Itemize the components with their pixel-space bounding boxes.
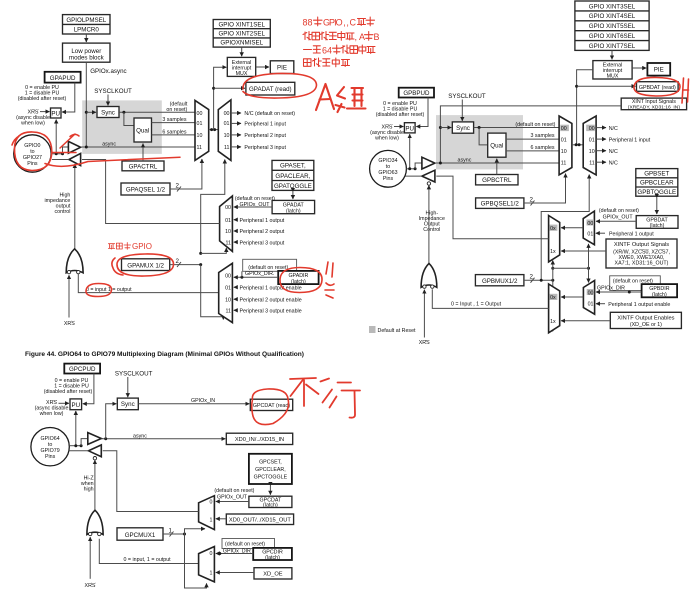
label rect default on reset dir B [610, 276, 661, 291]
wire mux1 to mux2 B [572, 144, 583, 146]
wire PU to pin line [55, 120, 57, 154]
svg-text:high: high [84, 487, 94, 493]
label Hi-Z when high [81, 476, 94, 493]
svg-text:Peripheral 1 output enable: Peripheral 1 output enable [240, 285, 302, 291]
red scribble arrow at buffers A [45, 134, 180, 166]
svg-text:GPACLEAR,: GPACLEAR, [275, 173, 310, 180]
svg-text:XRS: XRS [85, 583, 96, 589]
register box XD_OE [254, 568, 292, 579]
wire stage1 to stage2 out B [561, 227, 583, 229]
svg-text:Peripheral 1 output enable: Peripheral 1 output enable [608, 302, 670, 308]
wire OR out to driver enable B [428, 185, 430, 263]
wire GPCDAT latch to out mux C [216, 501, 249, 503]
label high impedance output control A [44, 192, 70, 215]
svg-text:00: 00 [197, 111, 203, 117]
svg-text:GPATOGGLE: GPATOGGLE [274, 183, 312, 190]
svg-text:SYSCLKOUT: SYSCLKOUT [115, 371, 153, 378]
wire sync to Qual B [479, 128, 488, 145]
svg-text:11: 11 [224, 145, 230, 151]
wire GPBDIR to dir mux B [596, 291, 642, 293]
red note: configure as GPIO [108, 242, 152, 251]
register box GPADAT (latch) A [272, 200, 315, 214]
svg-text:01: 01 [587, 231, 593, 237]
wire GPBCTRL to Qual [496, 159, 498, 175]
wire XRS to PU B [394, 126, 403, 128]
svg-text:(default on reset): (default on reset) [248, 265, 288, 271]
svg-text:GPBCTRL: GPBCTRL [482, 177, 512, 184]
svg-text:(latch): (latch) [652, 292, 667, 298]
register box GPIOLPMSEL/LPMCR0 [63, 15, 111, 34]
svg-text:10: 10 [197, 133, 203, 139]
pins circle GPIO34-GPIO63 [370, 150, 407, 187]
svg-text:00: 00 [589, 126, 595, 132]
svg-text:(disabled after reset): (disabled after reset) [44, 389, 93, 395]
wire XRS to OR A [68, 275, 70, 317]
mux B peripheral input demux [583, 116, 596, 175]
svg-text:Sync: Sync [456, 125, 470, 132]
wire output driver to pin [52, 159, 69, 161]
svg-text:0 = input, 1 = output: 0 = input, 1 = output [124, 557, 172, 563]
wire dir to OR A [78, 274, 218, 293]
mux A qualification select [195, 100, 209, 160]
Qual block B [488, 133, 506, 157]
mux B input demux labels with default shading [586, 125, 595, 131]
register box GPBDIR (latch) [642, 284, 678, 298]
svg-text:GPCTOGGLE: GPCTOGGLE [254, 475, 288, 481]
register box GPCDAT (read) [250, 399, 292, 410]
wire Sync out to mux 00 [119, 111, 195, 113]
wire XRS to PU C [59, 402, 69, 404]
svg-text:(XREADY, XD31:16_IN): (XREADY, XD31:16_IN) [628, 104, 680, 110]
mux B output stage1 [583, 211, 594, 245]
svg-text:01: 01 [589, 137, 595, 143]
svg-text:11: 11 [226, 240, 232, 246]
svg-text:01: 01 [588, 302, 594, 308]
svg-text:Peripheral 3 output enable: Peripheral 3 output enable [240, 309, 302, 315]
wire XINTF enables to dir mux B [561, 320, 610, 322]
wire enable to output driver A [74, 164, 76, 249]
wire stack to ext mux B [611, 50, 613, 59]
svg-text:GPCPUD: GPCPUD [69, 366, 96, 373]
svg-text:2: 2 [176, 183, 180, 190]
svg-text:0 = input 1 = output: 0 = input 1 = output [86, 287, 132, 293]
wire qual 3 samples [152, 122, 196, 124]
PU cell A [51, 108, 62, 118]
svg-text:XINT Input Signals: XINT Input Signals [632, 99, 676, 105]
wire set/clear to GPBDAT latch [656, 198, 658, 214]
svg-text:async: async [458, 157, 472, 163]
svg-text:00: 00 [225, 205, 231, 211]
mux B output stage2 [549, 216, 560, 262]
register box GPBQSEL1/2 [476, 198, 524, 209]
svg-text:00: 00 [224, 111, 230, 117]
wire qual 3 samples B [506, 138, 559, 140]
red marks right of GPADIR [325, 262, 334, 298]
svg-text:on reset): on reset) [166, 107, 187, 113]
mux A input demux labels [224, 111, 230, 151]
red handwriting A group [316, 84, 366, 112]
register box GPAMUX 1/2 [122, 259, 170, 271]
wire XRS to OR C [89, 537, 91, 579]
node GPADIR line A [240, 276, 243, 279]
node dots pin C [74, 444, 77, 447]
svg-text:MUX: MUX [607, 74, 619, 80]
wire async line A [81, 146, 195, 148]
mux A qual labels [197, 111, 203, 151]
wire to GPADAT read A [214, 87, 245, 89]
wire SYSCLKOUT arrow A [107, 95, 109, 106]
svg-text:PIE: PIE [277, 65, 287, 72]
red circle around GPADAT read [243, 73, 317, 98]
svg-text:0: 0 [209, 551, 212, 557]
label default on reset A [166, 101, 187, 113]
svg-text:GPIO XINT1SEL: GPIO XINT1SEL [218, 21, 265, 28]
svg-text:GPIO , , C: GPIO , , C [323, 18, 357, 28]
wire set/clear to GPCDAT latch [269, 486, 271, 495]
XINTF output signals box [606, 239, 677, 268]
wire pin to input buffer B [415, 163, 422, 169]
Sync block A [97, 107, 119, 118]
register box GPBCTRL [476, 175, 518, 185]
svg-text:GPAMUX 1/2: GPAMUX 1/2 [127, 262, 164, 269]
svg-text:GPBDAT (read): GPBDAT (read) [639, 85, 676, 91]
wire N/C 00 B [596, 127, 606, 129]
mux C direction select [199, 547, 215, 582]
svg-text:0x: 0x [550, 226, 556, 232]
svg-text:N/C: N/C [609, 126, 618, 132]
svg-text:Figure 44. GPIO64 to GPIO79 Mu: Figure 44. GPIO64 to GPIO79 Multiplexing… [25, 351, 304, 358]
svg-text:00: 00 [561, 126, 567, 132]
svg-text:when low): when low) [40, 411, 64, 417]
wire PU to pin line B [409, 134, 411, 169]
svg-text:modes block: modes block [69, 55, 105, 62]
svg-text:LPMCR0: LPMCR0 [74, 27, 100, 34]
wire XD_OE to dir mux C [216, 572, 254, 574]
label high impedance output control B [419, 211, 445, 234]
PU cell B [404, 123, 415, 133]
bus tick GPAMUX A [177, 262, 181, 267]
svg-text:control: control [54, 209, 70, 215]
wire pin to input buffer [63, 147, 69, 154]
node async riser B [439, 162, 442, 165]
svg-text:01: 01 [225, 285, 231, 291]
note pull-up text B [376, 101, 425, 118]
wire select to input demux A [201, 160, 225, 254]
wire output driver to pin B [406, 175, 422, 177]
svg-text:GPIOx_OUT: GPIOx_OUT [217, 494, 248, 500]
red note line 3: total 64 pins all can [304, 45, 376, 56]
wire pin node B [406, 168, 415, 170]
wire sync to Qual [124, 112, 134, 125]
svg-text:(default on reset): (default on reset) [515, 122, 555, 128]
svg-text:XINTF Output Signals: XINTF Output Signals [614, 242, 669, 248]
wire peripheral 3 output A [234, 241, 238, 243]
svg-text:GPADAT (read): GPADAT (read) [249, 86, 292, 93]
red note line 1: 88 GPIO , , C group cannot [303, 17, 375, 28]
wire dir stage1 to stage2 B [561, 296, 583, 298]
svg-text:(latch): (latch) [650, 223, 665, 229]
label rect default on reset dir A [243, 259, 297, 271]
node sync out [122, 111, 125, 114]
register box GPBMUX1/2 [475, 275, 524, 286]
svg-text:GPCDAT (read): GPCDAT (read) [253, 403, 290, 409]
svg-text:GPBCLEAR: GPBCLEAR [640, 180, 674, 187]
svg-text:N/C (default on reset): N/C (default on reset) [244, 111, 295, 117]
svg-text:GPBSET: GPBSET [644, 170, 669, 177]
svg-text:11: 11 [561, 160, 567, 166]
svg-text:0x: 0x [550, 295, 556, 301]
wire GPCDIR to dir mux C [216, 553, 253, 555]
wire GPCPUD to PU [83, 374, 94, 404]
svg-text:GPBTOGGLE: GPBTOGGLE [637, 189, 676, 196]
wire qual 6 samples [152, 134, 196, 136]
svg-text:GPIOx_OUT: GPIOx_OUT [603, 214, 634, 220]
red circle around pins A [12, 132, 52, 171]
svg-text:GPIOx_DIR: GPIOx_DIR [597, 286, 625, 292]
wire select to out mux C [185, 529, 206, 534]
OR gate C [87, 510, 103, 534]
wire N/C 10 B [596, 150, 606, 152]
svg-text:Peripheral 3 input: Peripheral 3 input [244, 145, 286, 151]
svg-text:(XD_OE or 1): (XD_OE or 1) [630, 322, 662, 328]
svg-text:Sync: Sync [121, 401, 135, 408]
red circle around GPAMUX [112, 254, 174, 276]
mux A direction labels [225, 274, 231, 315]
node dots between muxes A [210, 128, 213, 131]
svg-text:GPIO XINT4SEL: GPIO XINT4SEL [589, 13, 636, 20]
mux A output select [220, 196, 233, 251]
PU cell C [70, 399, 82, 410]
svg-text:PU: PU [51, 111, 60, 118]
svg-text:Default at Reset: Default at Reset [378, 328, 417, 334]
node select A [199, 252, 202, 255]
wire riser to ext mux B [577, 70, 593, 145]
svg-text:Peripheral 3 output: Peripheral 3 output [240, 240, 285, 246]
wire out mux to output driver A [82, 160, 220, 224]
svg-text:2: 2 [530, 197, 534, 204]
bus tick GPBQSEL [531, 201, 535, 206]
wire XRS to OR B [423, 290, 425, 338]
register box GPBSET/GPBCLEAR/GPBTOGGLE [636, 169, 678, 197]
wire GPACTRL to Qual [142, 144, 144, 162]
mux A peripheral input demux [218, 100, 231, 160]
register stack GPIO XINT3SEL..XINT7SEL [575, 1, 649, 50]
wire dir out to OR C [99, 539, 198, 564]
input buffer B [422, 157, 435, 169]
node GPBDIR line [628, 291, 631, 294]
mux C direction labels [209, 551, 212, 576]
node GPBDAT read tap [575, 85, 578, 88]
svg-text:GPIOXNMISEL: GPIOXNMISEL [220, 40, 263, 47]
svg-text:(default on reset): (default on reset) [214, 488, 254, 494]
red handwriting not ok C [290, 378, 360, 418]
wire set/clear to GPADAT latch A [292, 192, 294, 199]
svg-text:GPIOx.async: GPIOx.async [90, 68, 126, 75]
svg-text:01: 01 [197, 121, 203, 127]
svg-text:GPASET,: GPASET, [280, 163, 306, 170]
Sync block C [117, 398, 138, 410]
svg-text:1x: 1x [550, 249, 556, 255]
junction async/GPIOx.async [85, 146, 88, 149]
svg-text:GPIOx_DIR.: GPIOx_DIR. [245, 271, 274, 277]
svg-text:(latch): (latch) [291, 279, 306, 285]
wire peripheral 1 output B [596, 232, 605, 234]
svg-text:N/C: N/C [609, 160, 618, 166]
red note line 2: cannot do external interrupt, A and B [303, 32, 380, 43]
svg-text:N/C: N/C [609, 149, 618, 155]
svg-text:6 samples: 6 samples [162, 130, 186, 136]
PIE box B [647, 63, 670, 76]
label XRS C [35, 400, 69, 417]
wire pin node C [69, 445, 81, 447]
svg-text:(latch): (latch) [286, 208, 301, 214]
svg-text:SYSCLKOUT: SYSCLKOUT [94, 88, 132, 95]
wire GPAMUX select A [170, 264, 201, 266]
wire OR out to driver enable C [94, 460, 96, 510]
OR gate A [66, 249, 83, 273]
svg-text:, A: , A [355, 32, 366, 42]
enable bubble output driver B [427, 182, 430, 185]
input buffer A [68, 141, 80, 153]
svg-text:Qual: Qual [136, 127, 149, 134]
node GPADAT read tap A [212, 87, 215, 90]
wire select to dir stage1 B [588, 268, 590, 282]
svg-text:when low): when low) [375, 136, 399, 142]
node sync out B [478, 126, 481, 129]
svg-text:XINTF Output Enables: XINTF Output Enables [617, 316, 674, 322]
register box GPAQSEL 1/2 [121, 183, 170, 195]
svg-text:GPIOx_OUT: GPIOx_OUT [240, 202, 271, 208]
legend default at reset [369, 326, 416, 334]
wire dir out to OR B [432, 289, 548, 308]
svg-text:01: 01 [224, 121, 230, 127]
wire select riser stage2 B [552, 261, 554, 281]
svg-text:GPBQSEL1/2: GPBQSEL1/2 [481, 201, 520, 208]
mux B direction stage1 [583, 281, 594, 315]
svg-text:XRS: XRS [419, 340, 430, 346]
svg-text:GPCSET,: GPCSET, [259, 460, 282, 466]
svg-text:1x: 1x [550, 319, 556, 325]
bus tick GPCMUX [170, 532, 174, 537]
external interrupt mux A [227, 57, 255, 77]
svg-text:(default on reset): (default on reset) [599, 208, 639, 214]
svg-text:Pins: Pins [27, 161, 38, 167]
svg-text:B: B [374, 32, 380, 42]
XINTF output enables box [610, 312, 681, 328]
enable bubble output driver C [93, 457, 96, 460]
wire select to out mux A [201, 248, 227, 253]
register box GPADIR (latch) [278, 271, 318, 285]
register box GPBPUD [399, 88, 434, 98]
mux B direction stage2 [549, 284, 560, 333]
wire peripheral 3 input A [231, 146, 241, 148]
svg-text:3 samples: 3 samples [530, 133, 554, 139]
svg-text:(latch): (latch) [263, 503, 278, 509]
mux A direction select [219, 263, 233, 322]
svg-text:2: 2 [176, 258, 180, 265]
register box XD0_IN..XD15_IN [226, 433, 292, 444]
wire peripheral 1 output A [234, 219, 238, 221]
svg-text:Peripheral 1 output: Peripheral 1 output [240, 218, 285, 224]
mux B direction stage1 labels [587, 289, 594, 295]
svg-text:6 samples: 6 samples [530, 145, 554, 151]
mux B qualification select [559, 116, 572, 175]
svg-text:2: 2 [530, 274, 534, 281]
bus tick GPAQSEL [177, 187, 181, 192]
svg-text:01: 01 [225, 218, 231, 224]
svg-text:XD_OE: XD_OE [263, 572, 282, 578]
register box GPASET/GPACLEAR/GPATOGGLE [272, 160, 314, 190]
Sync block B [452, 122, 473, 133]
low power modes block [63, 43, 111, 62]
wire XRS to PU [40, 111, 50, 113]
node dots between muxes B [575, 143, 578, 146]
svg-text:0 = Input , 1 = Output: 0 = Input , 1 = Output [451, 302, 502, 308]
wire out mux to output driver C [103, 451, 199, 512]
svg-text:XD0_OUT/../XD15_OUT: XD0_OUT/../XD15_OUT [229, 518, 291, 524]
svg-text:PU: PU [405, 125, 414, 132]
svg-text:Control: Control [423, 227, 440, 233]
wire ext mux to PIE A [256, 66, 269, 68]
svg-text:Pins: Pins [45, 454, 56, 460]
wire peripheral 2 output A [234, 230, 238, 232]
register stack GPIO XINT1SEL/XINT2SEL/XNMISEL [213, 20, 270, 48]
label XRS A [16, 110, 50, 127]
register box GPCMUX1 [117, 528, 163, 540]
svg-text:GPAQSEL 1/2: GPAQSEL 1/2 [126, 187, 166, 194]
register box GPAPUD [45, 72, 81, 83]
wire GPBPUD to PU [416, 98, 428, 127]
wire GPBMUX select B [524, 279, 553, 281]
OR gate C input bubbles [89, 532, 92, 535]
svg-text:GPACTRL: GPACTRL [129, 163, 158, 170]
wire Sync out to mux B [474, 127, 559, 129]
svg-text:10: 10 [224, 133, 230, 139]
output driver C [89, 445, 102, 457]
svg-text:(default on reset): (default on reset) [225, 541, 265, 547]
output driver B [422, 170, 435, 182]
label XRS B [370, 124, 404, 141]
wire GPCMUX select [163, 533, 185, 535]
note pull-up text C [44, 378, 93, 395]
wire peripheral 2 output enable A [234, 298, 238, 300]
OR gate B [421, 263, 437, 287]
output driver A [69, 153, 81, 165]
mux B output stage2 labels [550, 225, 558, 231]
svg-text:Sync: Sync [101, 109, 115, 116]
wire qual 6 samples B [506, 150, 559, 152]
wire to Sync B [440, 127, 451, 129]
svg-text:00: 00 [588, 290, 594, 296]
wire riser to interrupt mux A [214, 67, 227, 129]
mux C output labels [209, 500, 212, 524]
svg-text:Peripheral 1 input: Peripheral 1 input [244, 122, 286, 128]
node GPCDIR line [218, 552, 221, 555]
svg-text:00: 00 [587, 221, 593, 227]
wire ext mux to PIE B [632, 67, 646, 69]
svg-text:64: 64 [322, 46, 332, 56]
wire to GPBDAT read [577, 85, 636, 87]
wire N/C 11 B [596, 161, 606, 163]
node select B [540, 279, 543, 282]
svg-text:10: 10 [225, 229, 231, 235]
register box GPCDIR (latch) [253, 548, 292, 561]
svg-text:GPIOLPMSEL: GPIOLPMSEL [66, 17, 106, 24]
wire SYSCLKOUT arrow B [461, 100, 463, 121]
svg-text:GPIOx_IN: GPIOx_IN [191, 398, 215, 404]
note pull-up text A [18, 85, 67, 102]
register box XD0_OUT..XD15_OUT [226, 514, 293, 525]
